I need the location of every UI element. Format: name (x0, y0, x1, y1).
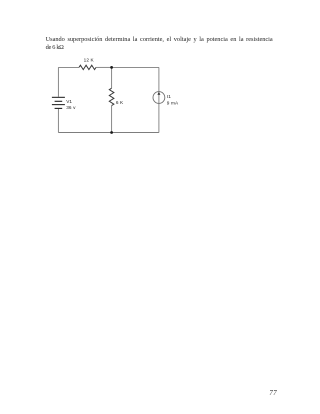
svg-text:6 K: 6 K (116, 100, 124, 105)
wire left vertical lower (battery to bottom corner) (57, 109, 59, 133)
wire top-left to resistor R1 (58, 66, 79, 68)
svg-text:I1: I1 (167, 94, 171, 99)
wire top junction to top-right corner (112, 66, 159, 68)
battery V1 plate long top (52, 97, 65, 98)
node junction top (110, 66, 113, 69)
battery V1 plate short (55, 101, 63, 102)
svg-text:12 K: 12 K (84, 58, 95, 63)
wire middle vertical upper (junction to 6K) (111, 67, 113, 88)
wire left vertical upper (corner to battery) (57, 67, 59, 96)
svg-text:V1: V1 (66, 99, 72, 104)
current source I1 circle (153, 92, 165, 104)
resistor 6 K (109, 88, 114, 105)
battery V1 plate long (52, 104, 65, 105)
resistor 12 K (79, 65, 96, 69)
wire right vertical through current source (158, 67, 160, 132)
svg-text:9 mA: 9 mA (167, 100, 179, 105)
wire resistor to top junction (96, 66, 112, 68)
wire bottom (58, 132, 158, 134)
battery V1 plate short bottom (55, 108, 63, 109)
wire middle vertical lower (6K to bottom junction) (111, 106, 113, 133)
node junction bottom (110, 131, 113, 134)
current source I1 arrowhead (157, 92, 160, 95)
svg-text:36 v: 36 v (66, 105, 76, 110)
